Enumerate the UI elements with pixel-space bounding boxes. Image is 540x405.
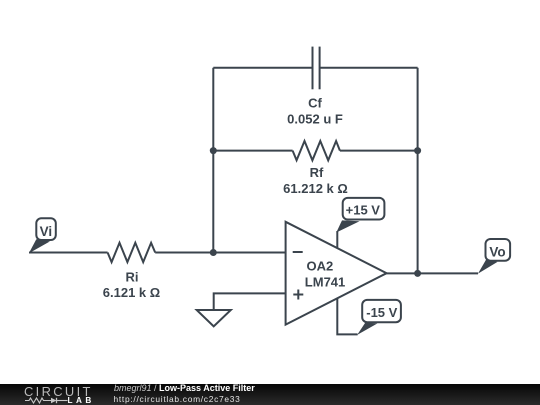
svg-text:-15 V: -15 V (366, 305, 397, 320)
op-amp minus symbol (293, 251, 303, 253)
flag Vo box (486, 239, 511, 261)
wire: capacitor to top right (320, 67, 418, 69)
wire: non-inverting input (214, 293, 286, 310)
flag -15V tail (357, 323, 377, 335)
resistor Rf (293, 141, 340, 160)
resistor Ri (108, 243, 156, 262)
flag +15V box (343, 198, 385, 220)
junction dot node B (Rf right) (414, 147, 421, 154)
wire: -15V supply drop (337, 299, 357, 335)
svg-text:Ri: Ri (126, 270, 139, 285)
flag Vi box (36, 218, 56, 240)
op-amp OA2 triangle (286, 222, 387, 325)
logo squiggle (25, 397, 68, 404)
svg-text:Rf: Rf (310, 165, 324, 180)
wire: +15V supply drop (336, 231, 338, 248)
wire: top left to capacitor (213, 67, 312, 69)
svg-text:+15 V: +15 V (346, 203, 381, 218)
svg-text:61.212 k Ω: 61.212 k Ω (283, 181, 348, 196)
junction dot node A (input) (210, 249, 217, 256)
logo CIRCUIT (24, 386, 93, 399)
flag -15V box (362, 300, 401, 322)
wire: op-amp output (387, 272, 478, 274)
wire: main input horizontal left (29, 252, 108, 254)
svg-text:0.052 u F: 0.052 u F (287, 112, 343, 127)
flag Vo tail (478, 259, 498, 273)
wire: Rf right stub (340, 150, 418, 152)
svg-text:Vi: Vi (40, 224, 53, 239)
junction dot node output (414, 270, 421, 277)
footer url line (114, 395, 241, 403)
svg-text:LM741: LM741 (305, 275, 345, 290)
ground (197, 310, 231, 326)
svg-text:6.121 k Ω: 6.121 k Ω (103, 285, 160, 300)
svg-text:Vo: Vo (489, 244, 505, 259)
footer bar (0, 384, 540, 405)
wire: Rf left stub (213, 150, 292, 152)
svg-text:OA2: OA2 (307, 258, 334, 273)
svg-text:Cf: Cf (308, 96, 322, 111)
wire: right vertical feedback (417, 68, 419, 274)
wire: main input horizontal right (155, 252, 285, 254)
logo LAB (68, 397, 95, 405)
junction dot node A (Rf left) (210, 147, 217, 154)
capacitor Cf (313, 47, 320, 90)
op-amp plus symbol (293, 290, 303, 300)
flag +15V tail (336, 220, 359, 232)
flag Vi tail (29, 239, 50, 253)
footer title line (114, 384, 255, 393)
wire: left vertical riser (212, 68, 214, 253)
